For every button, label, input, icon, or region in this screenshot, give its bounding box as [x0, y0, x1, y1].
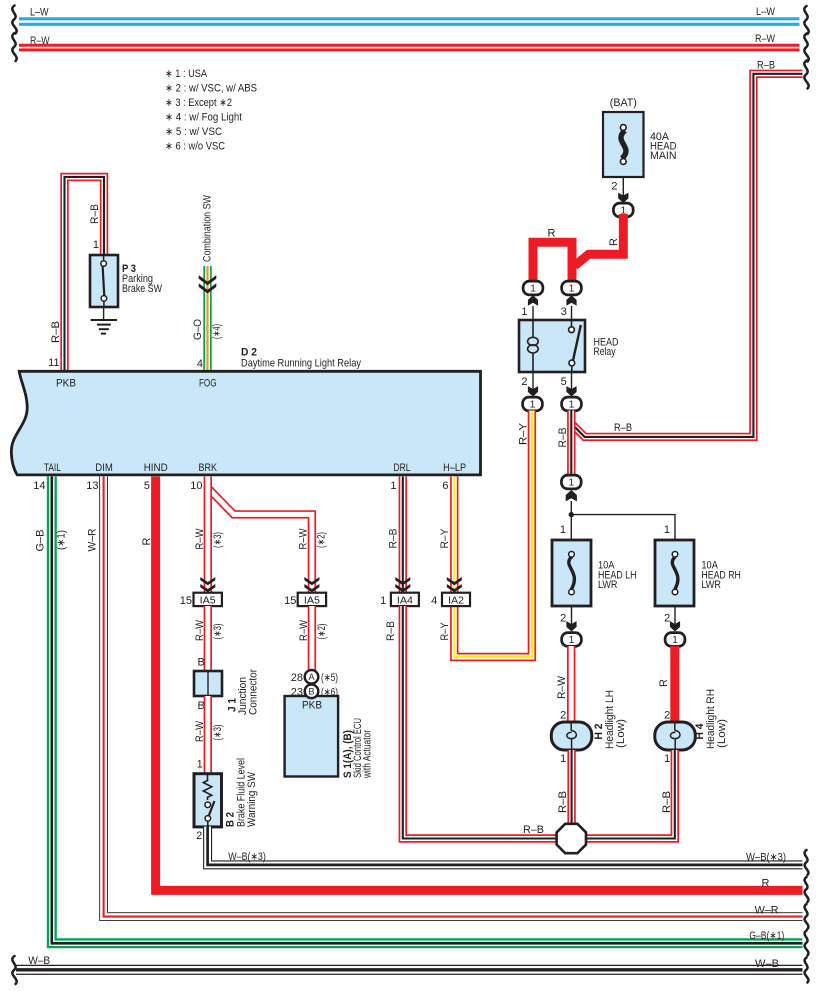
- svg-text:(∗3): (∗3): [212, 624, 224, 640]
- wire R-B from HEAD relay pin 5 to power branch (right side): [571, 74, 802, 437]
- svg-text:R–W: R–W: [194, 619, 206, 641]
- wire G-O combination SW to D2 pin 4: [203, 266, 211, 371]
- fuse 10A HEAD RH LWR body: [655, 540, 694, 606]
- svg-text:R–Y: R–Y: [439, 528, 451, 549]
- wire R-B from D2 DRL to IA4: [399, 477, 407, 595]
- svg-text:H 4: H 4: [694, 723, 706, 740]
- connector circle B: [305, 685, 319, 699]
- svg-text:W–B(∗3): W–B(∗3): [228, 851, 265, 863]
- svg-text:Warning SW: Warning SW: [246, 771, 258, 827]
- svg-text:W–B: W–B: [28, 955, 50, 967]
- node 1 connector (headlight feed): [561, 475, 581, 489]
- svg-text:3: 3: [561, 306, 567, 318]
- arrow into node 1 (pin 1): [528, 295, 538, 305]
- svg-text:(∗3): (∗3): [212, 725, 224, 741]
- svg-text:DIM: DIM: [95, 462, 113, 474]
- wire node to relay pin 1: [532, 306, 534, 321]
- svg-text:IA5: IA5: [304, 595, 320, 606]
- svg-text:1: 1: [560, 753, 566, 765]
- svg-text:R: R: [608, 238, 620, 246]
- svg-text:HIND: HIND: [144, 462, 168, 474]
- arrow into node (pin 5): [566, 386, 576, 396]
- svg-text:R: R: [762, 878, 770, 890]
- arrow into IA2: [447, 577, 462, 592]
- wire R branch to relay pin 1 and pin 3: [533, 242, 572, 284]
- svg-text:BRK: BRK: [199, 462, 218, 474]
- arrow into node 1 (BAT): [618, 193, 628, 203]
- svg-text:2: 2: [664, 709, 670, 721]
- wire node to fuse block LH: [570, 501, 572, 541]
- headlight H4 RH body: [655, 722, 696, 750]
- junction connector J1 body: [194, 671, 222, 696]
- filament H2: [567, 723, 577, 749]
- wire R solid fuse RH to headlight H4: [670, 646, 679, 723]
- svg-text:R–W: R–W: [298, 528, 310, 550]
- wire R-W fuse LH to headlight H2: [567, 646, 575, 723]
- svg-text:(Low): (Low): [615, 719, 627, 748]
- svg-text:2: 2: [611, 181, 617, 193]
- svg-text:R–B: R–B: [557, 428, 569, 448]
- ECU S1 Skid Control body: [285, 696, 339, 777]
- svg-text:LWR: LWR: [598, 579, 618, 591]
- svg-text:Relay: Relay: [594, 346, 616, 358]
- svg-text:R–B: R–B: [50, 321, 62, 343]
- svg-text:MAIN: MAIN: [650, 150, 677, 162]
- break symbol W-B(*3) right: [805, 850, 809, 875]
- connector IA2: [442, 593, 470, 606]
- svg-text:W–R: W–R: [755, 905, 779, 917]
- arrow on G-O wire: [199, 275, 217, 293]
- svg-text:11: 11: [48, 357, 59, 369]
- connector circle A: [305, 670, 319, 684]
- arrow into IA5 left: [200, 577, 215, 592]
- svg-text:R–B: R–B: [523, 824, 544, 836]
- arrow into node 1 (pin 3): [566, 295, 576, 305]
- relay HEAD Relay body: [519, 320, 585, 372]
- svg-text:R–B: R–B: [661, 791, 673, 813]
- headlight H2 LH body: [551, 722, 592, 750]
- svg-text:R–W: R–W: [556, 675, 568, 699]
- svg-text:1: 1: [569, 635, 575, 646]
- svg-text:B: B: [308, 687, 314, 697]
- wire R-B headlight H4 to ground octagon: [584, 750, 675, 839]
- svg-text:(∗5): (∗5): [321, 672, 338, 684]
- relay coil: [528, 320, 539, 372]
- svg-text:R–B: R–B: [757, 59, 775, 71]
- svg-text:IA4: IA4: [397, 595, 413, 606]
- svg-text:R–W: R–W: [755, 33, 775, 45]
- break symbol R right: [805, 877, 809, 902]
- svg-text:R–W: R–W: [298, 619, 310, 641]
- node 1 connector (relay pin 3 feed): [562, 281, 582, 295]
- svg-text:with Actuator: with Actuator: [362, 730, 374, 779]
- svg-text:1: 1: [390, 480, 396, 492]
- wire R-B IA4 to octagon junction: [403, 606, 558, 839]
- svg-text:1: 1: [664, 753, 670, 765]
- svg-text:IA2: IA2: [448, 595, 464, 606]
- svg-text:R–W: R–W: [194, 720, 206, 742]
- B2 resistor and switch: [203, 775, 214, 826]
- svg-text:Brake SW: Brake SW: [122, 283, 162, 295]
- connector IA5 left: [194, 593, 222, 606]
- connector IA5 right: [298, 593, 326, 606]
- svg-text:∗ 3 : Except ∗2: ∗ 3 : Except ∗2: [165, 97, 232, 109]
- wire node to relay pin 3: [571, 306, 573, 321]
- fuse 40A HEAD MAIN element: [620, 125, 626, 165]
- break symbol R-W left: [12, 33, 16, 61]
- svg-text:R–B: R–B: [89, 204, 101, 224]
- switch B2 Brake Fluid Level Warning SW body: [194, 774, 222, 827]
- svg-text:1: 1: [569, 400, 575, 411]
- svg-text:∗ 4 : w/ Fog Light: ∗ 4 : w/ Fog Light: [165, 112, 242, 124]
- svg-text:(∗2): (∗2): [316, 532, 328, 548]
- J1 divider: [207, 671, 209, 696]
- svg-text:28: 28: [291, 672, 303, 684]
- svg-text:(∗3): (∗3): [212, 532, 224, 548]
- svg-text:W–B: W–B: [755, 958, 779, 970]
- relay switch contact: [569, 320, 581, 372]
- wire G-B from D2 TAIL to bottom bus: [52, 477, 803, 944]
- svg-text:W–B(∗3): W–B(∗3): [746, 851, 786, 863]
- svg-text:1: 1: [530, 284, 536, 295]
- wire RH fuse to node: [674, 606, 676, 628]
- arrow into IA5 right: [304, 577, 319, 592]
- wire P3 pin 2 to ground: [103, 307, 105, 320]
- switch P3 Parking Brake SW body: [90, 255, 118, 307]
- wire relay pin 5 to node: [571, 372, 573, 390]
- wire LH fuse to node: [571, 606, 573, 628]
- svg-text:10: 10: [190, 480, 202, 492]
- svg-text:IA5: IA5: [200, 595, 216, 606]
- svg-text:1: 1: [521, 306, 527, 318]
- svg-text:5: 5: [561, 376, 567, 388]
- svg-text:1: 1: [93, 239, 99, 251]
- svg-text:L–W: L–W: [756, 6, 776, 18]
- svg-text:(Low): (Low): [716, 719, 728, 748]
- svg-text:D 2: D 2: [241, 346, 257, 358]
- svg-text:R–W: R–W: [194, 528, 206, 550]
- svg-text:2: 2: [560, 613, 566, 625]
- P3 switch contacts: [101, 256, 107, 306]
- svg-text:1: 1: [569, 478, 575, 489]
- arrow into node (RH fuse out): [670, 621, 680, 631]
- svg-text:W–R: W–R: [87, 528, 99, 551]
- wire R-W J1 to B2: [204, 696, 212, 775]
- svg-text:(BAT): (BAT): [610, 97, 637, 109]
- svg-text:4: 4: [197, 358, 203, 370]
- wire R-W branch BRK to IA5 (*2): [209, 489, 312, 594]
- svg-text:13: 13: [86, 480, 98, 492]
- svg-text:R–B: R–B: [614, 422, 632, 434]
- svg-text:R–B: R–B: [388, 529, 400, 549]
- svg-text:2: 2: [664, 613, 670, 625]
- wire R from D2 HIND to bottom bus: [156, 477, 803, 891]
- wire junction to fuse block RH: [571, 515, 675, 541]
- node 1 connector (relay pin 2 out): [523, 397, 543, 411]
- svg-text:R–Y: R–Y: [518, 422, 530, 445]
- svg-text:R–W: R–W: [30, 35, 50, 47]
- arrow into node (pin 2): [528, 386, 538, 396]
- svg-text:PKB: PKB: [302, 700, 322, 712]
- bus R-W (tail light feed 2): [19, 45, 800, 50]
- wire R-W from D2 BRK to IA5 (*3): [204, 477, 212, 595]
- wire fuse 2 to node: [622, 177, 624, 198]
- svg-text:∗ 5 : w/ VSC: ∗ 5 : w/ VSC: [165, 126, 222, 138]
- svg-text:B: B: [198, 656, 205, 668]
- svg-text:R–Y: R–Y: [439, 622, 451, 641]
- bus L-W (tail light feed): [19, 19, 800, 25]
- node 1 connector (relay pin 1 feed): [523, 281, 543, 295]
- svg-text:PKB: PKB: [56, 377, 76, 389]
- svg-text:1: 1: [530, 400, 536, 411]
- arrow into node (headlight feed): [566, 490, 577, 501]
- wire R-B from P3 loop to D2 pin 11: [65, 177, 105, 371]
- fuse 10A HEAD LH LWR body: [552, 540, 591, 606]
- relay D2 Daytime Running Light Relay body: [11, 371, 480, 475]
- svg-text:G–O: G–O: [192, 319, 204, 340]
- svg-text:Connector: Connector: [248, 669, 260, 715]
- node 1 connector (relay pin 5 out): [562, 397, 582, 411]
- svg-text:6: 6: [442, 480, 448, 492]
- break symbol G-B right: [805, 931, 809, 956]
- wire R-Y from D2 H-LP to IA2: [450, 477, 458, 595]
- octagon junction node: [557, 824, 586, 853]
- ground symbol: [91, 320, 118, 334]
- svg-text:∗ 1 : USA: ∗ 1 : USA: [165, 68, 208, 80]
- svg-text:R–B: R–B: [385, 621, 397, 641]
- svg-text:G–B: G–B: [35, 530, 47, 552]
- svg-text:L–W: L–W: [30, 6, 49, 18]
- svg-text:14: 14: [33, 480, 45, 492]
- svg-text:R: R: [141, 538, 153, 546]
- wire R-Y from relay pin 2 to junction IA2: [454, 411, 532, 658]
- break symbol W-B left: [12, 956, 16, 984]
- fuse element RH: [672, 552, 678, 595]
- break symbol L-W left: [12, 6, 16, 34]
- node 1 connector (BAT feed): [613, 203, 633, 217]
- node 1 connector (RH fuse out): [665, 633, 685, 647]
- svg-text:(∗2): (∗2): [316, 624, 328, 640]
- svg-text:R: R: [658, 679, 670, 687]
- svg-text:2: 2: [196, 830, 202, 842]
- svg-text:Daytime Running Light Relay: Daytime Running Light Relay: [241, 358, 361, 370]
- svg-text:15: 15: [284, 595, 296, 607]
- wire R-W IA5 to skid control ECU: [308, 606, 316, 670]
- arrow into node (LH fuse out): [566, 621, 576, 631]
- break symbol W-R right: [805, 904, 809, 929]
- svg-text:∗ 2 : w/ VSC, w/ ABS: ∗ 2 : w/ VSC, w/ ABS: [165, 83, 257, 95]
- svg-text:(∗4): (∗4): [211, 324, 223, 339]
- wire relay pin 2 to node: [532, 372, 534, 390]
- svg-text:TAIL: TAIL: [44, 462, 61, 474]
- svg-text:A: A: [308, 672, 314, 682]
- arrow into IA4: [395, 577, 410, 592]
- break symbol L-W right: [804, 6, 808, 34]
- wire R-B headlight H2 to ground octagon: [567, 750, 575, 826]
- svg-text:H–LP: H–LP: [443, 462, 466, 474]
- wire W-B ground bus bottom: [16, 965, 803, 975]
- svg-text:1: 1: [672, 635, 678, 646]
- svg-text:FOG: FOG: [199, 377, 217, 389]
- break symbol R-B top right: [804, 61, 808, 89]
- svg-text:∗ 6 : w/o VSC: ∗ 6 : w/o VSC: [165, 141, 225, 153]
- break symbol R-W right: [804, 34, 808, 62]
- svg-text:Combination SW: Combination SW: [202, 195, 214, 262]
- svg-text:5: 5: [144, 480, 150, 492]
- filament H4: [670, 723, 680, 749]
- svg-text:1: 1: [569, 284, 575, 295]
- svg-text:1: 1: [664, 524, 670, 536]
- wire W-R from D2 DIM to bottom bus: [104, 477, 803, 917]
- svg-text:1: 1: [380, 595, 386, 607]
- svg-text:15: 15: [180, 595, 192, 607]
- wire R-B relay pin 5 down: [567, 411, 575, 476]
- svg-text:R–B: R–B: [557, 791, 569, 813]
- svg-text:LWR: LWR: [701, 579, 721, 591]
- svg-text:2: 2: [560, 709, 566, 721]
- node 1 connector (LH fuse out): [562, 633, 582, 647]
- fuse 40A HEAD MAIN body: [603, 112, 644, 177]
- svg-text:1: 1: [560, 524, 566, 536]
- svg-text:DRL: DRL: [394, 462, 411, 474]
- break symbol W-B right: [805, 958, 809, 983]
- wire R-W IA5 to J1: [204, 606, 212, 672]
- svg-text:G–B(∗1): G–B(∗1): [749, 930, 784, 942]
- junction dot: [569, 512, 574, 517]
- svg-text:4: 4: [431, 595, 437, 607]
- connector IA4: [391, 593, 419, 606]
- wire R from BAT node to relay branch: [575, 214, 624, 266]
- svg-text:R: R: [548, 228, 556, 240]
- svg-text:(∗1): (∗1): [56, 530, 68, 550]
- fuse element LH: [569, 552, 575, 595]
- svg-text:2: 2: [521, 376, 527, 388]
- wire W-B(*3) from B2 to right: [208, 827, 803, 865]
- svg-text:1: 1: [197, 758, 203, 770]
